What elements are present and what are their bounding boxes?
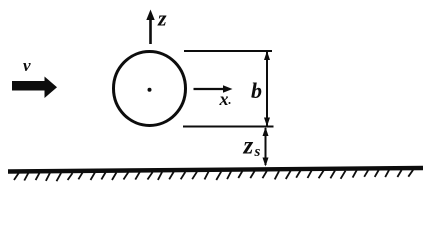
cylinder circle bbox=[114, 52, 186, 126]
center dot bbox=[148, 88, 152, 92]
svg-text:v: v bbox=[23, 56, 31, 75]
ground line bbox=[8, 168, 423, 172]
dimension line b bbox=[264, 51, 270, 127]
svg-text:b: b bbox=[251, 78, 262, 103]
svg-text:z: z bbox=[243, 133, 254, 160]
extension line bottom tangent bbox=[183, 126, 274, 128]
speck after x bbox=[229, 102, 231, 104]
velocity arrow v bbox=[12, 77, 57, 99]
ground hatching bbox=[14, 170, 413, 182]
svg-text:s: s bbox=[254, 144, 261, 160]
svg-text:z: z bbox=[157, 6, 167, 31]
svg-text:x: x bbox=[219, 89, 229, 109]
x-axis arrow bbox=[194, 85, 233, 92]
extension line top tangent bbox=[184, 50, 272, 52]
dimension line z_s bbox=[263, 127, 269, 167]
z-axis arrow bbox=[146, 10, 154, 45]
